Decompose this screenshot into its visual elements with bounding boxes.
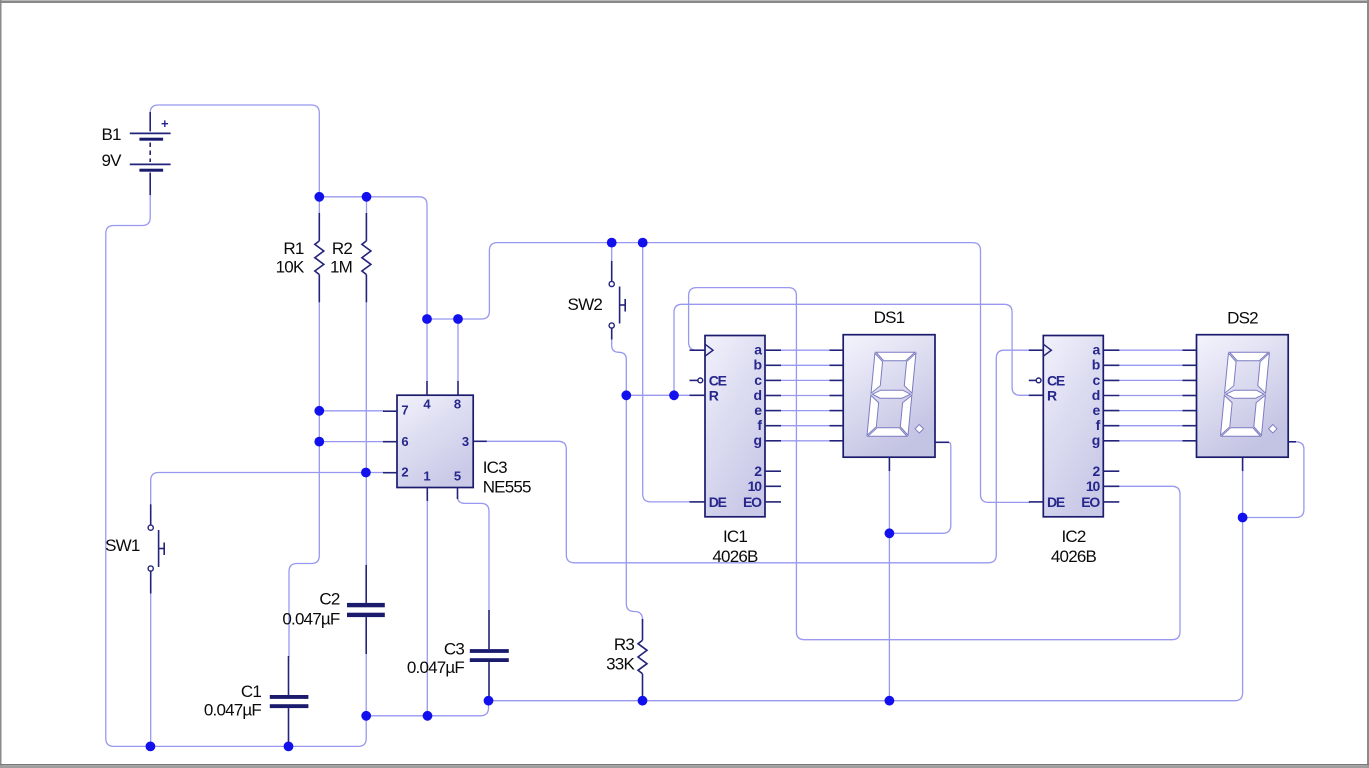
svg-text:IC2: IC2 (1061, 527, 1085, 546)
capacitor C3 (470, 610, 509, 701)
wire R1 top lead gap (318, 197, 320, 214)
wire pin 5 to C3 (458, 497, 490, 611)
svg-text:b: b (1092, 357, 1100, 373)
wire VCC junction down to IC1 DE pin (643, 243, 690, 502)
wire R row to IC1 R pin (626, 394, 690, 396)
wire IC1 segment e to DS1 (780, 410, 830, 412)
svg-text:4026B: 4026B (712, 547, 758, 566)
svg-text:10: 10 (1086, 478, 1101, 494)
wire IC1 segment f to DS1 (780, 425, 830, 427)
svg-text:IC3: IC3 (483, 458, 507, 477)
svg-text:1M: 1M (330, 258, 352, 277)
wire R2 bottom to pin2 junction to C2 (365, 302, 367, 567)
node pin1 ground junction (423, 711, 433, 721)
wire ground row y701 to DS2 common (489, 518, 1243, 701)
wire battery- down left side to ground rail (106, 194, 366, 746)
svg-text:DE: DE (709, 494, 727, 510)
node pin8 junction (453, 314, 463, 324)
node C1 ground junction (284, 742, 294, 752)
svg-text:1: 1 (423, 469, 430, 484)
wire IC2 segment b to DS2 (1119, 364, 1183, 366)
wire IC1 segment b to DS1 (780, 364, 830, 366)
wire IC2 pin10 loop to IC1 clock (689, 288, 1180, 640)
node R1 top junction (314, 192, 324, 202)
op-amp IC3 555 timer body (383, 381, 487, 501)
svg-text:DE: DE (1047, 494, 1065, 510)
IC2 4026B counter body (1029, 336, 1120, 517)
node DS1 common ground junction (885, 696, 895, 706)
svg-text:b: b (753, 357, 761, 373)
wire pin 6 (319, 441, 384, 443)
resistor R3 (638, 619, 647, 701)
wire DS1 right pin loop to common junction (889, 442, 950, 533)
svg-text:33K: 33K (606, 655, 635, 674)
svg-text:3: 3 (462, 434, 469, 449)
window frame left (0, 0, 2, 768)
resistor R1 (315, 213, 324, 302)
svg-text:0.047µF: 0.047µF (282, 609, 340, 628)
window frame right (1367, 0, 1369, 768)
wire R2 top lead gap (366, 197, 368, 214)
svg-text:NE555: NE555 (483, 477, 531, 496)
switch SW1 (push button) (148, 504, 164, 593)
svg-text:C3: C3 (444, 640, 464, 659)
wire SW1 bottom to ground rail (150, 592, 152, 746)
svg-text:8: 8 (454, 396, 461, 411)
svg-text:d: d (753, 387, 761, 403)
wire C2 bottom (365, 653, 367, 716)
wire SW1 to pin 2 (151, 473, 384, 506)
wire pin 4 drop (426, 319, 428, 382)
wire IC2 segment f to DS2 (1119, 425, 1183, 427)
node IC1 DE feed junction (638, 238, 648, 248)
wire SW2 bottom elbow to R row (612, 338, 627, 395)
svg-text:6: 6 (401, 434, 408, 449)
wire pin 8 drop (457, 319, 459, 382)
node pin6 junction (314, 437, 324, 447)
svg-text:4: 4 (423, 397, 431, 412)
wire IC2 segment e to DS2 (1119, 410, 1183, 412)
wire IC1 segment d to DS1 (780, 395, 830, 397)
switch SW2 (push button) (609, 261, 625, 340)
wire SW2 top stem gap (611, 243, 613, 262)
svg-text:g: g (753, 432, 761, 448)
node R row to IC2 junction (669, 390, 679, 400)
wire pin 1 to ground row (426, 501, 428, 716)
svg-text:9V: 9V (102, 151, 123, 170)
node C3 bottom junction (484, 696, 494, 706)
svg-text:DS2: DS2 (1227, 309, 1258, 328)
svg-text:4026B: 4026B (1051, 547, 1097, 566)
window frame bottom (0, 764, 1369, 765)
svg-text:5: 5 (454, 469, 461, 484)
svg-text:R1: R1 (283, 239, 303, 258)
wire DS2 common pin down (1242, 470, 1244, 518)
node DS2 common junction (1238, 513, 1248, 523)
wire node pins4-8 row to top VCC rail to IC2 DE (427, 243, 1030, 503)
node SW1 ground junction (146, 742, 156, 752)
wire IC2 segment d to DS2 (1119, 395, 1183, 397)
capacitor C1 (270, 656, 309, 746)
node pin2 junction (361, 468, 371, 478)
wire IC1 segment g to DS1 (780, 440, 830, 442)
svg-text:C2: C2 (319, 590, 339, 609)
node DS1 common pin junction (885, 528, 895, 538)
node pin4 junction (422, 314, 432, 324)
battery B1 (130, 112, 171, 195)
wire VCC rail R1-R2 to 555 pins 4/8 riser (319, 197, 427, 319)
display DS2 seven-segment (1183, 335, 1297, 471)
svg-text:CE: CE (1047, 373, 1065, 389)
svg-text:2: 2 (401, 465, 408, 480)
svg-text:+: + (161, 116, 169, 131)
svg-text:0.047µF: 0.047µF (204, 701, 262, 720)
node C2 bottom junction (361, 711, 371, 721)
wire IC1 segment c to DS1 (780, 379, 830, 381)
svg-text:SW2: SW2 (568, 295, 603, 314)
svg-text:B1: B1 (102, 125, 122, 144)
node pin7 junction (314, 406, 324, 416)
svg-text:g: g (1092, 432, 1100, 448)
wire R row junction up and over to IC2 R pin (674, 304, 1030, 395)
wire IC2 segment c to DS2 (1119, 379, 1183, 381)
node SW2 top junction (607, 238, 617, 248)
wire ground row y716 (366, 701, 488, 716)
svg-text:0.047µF: 0.047µF (407, 658, 465, 677)
wire 555 pin3 to IC2 clock (486, 350, 1030, 563)
node R3 bottom junction (638, 696, 648, 706)
node SW2 bottom / R row junction (621, 390, 631, 400)
svg-text:R: R (1047, 388, 1057, 404)
svg-text:R: R (709, 388, 719, 404)
svg-text:SW1: SW1 (105, 536, 140, 555)
svg-text:IC1: IC1 (723, 527, 747, 546)
resistor R2 (362, 213, 371, 302)
wire IC2 segment a to DS2 (1119, 349, 1183, 351)
node R2 top junction (362, 192, 372, 202)
wire IC1 segment a to DS1 (780, 349, 830, 351)
wire IC2 segment g to DS2 (1119, 440, 1183, 442)
svg-text:R2: R2 (332, 239, 352, 258)
capacitor C2 (347, 565, 385, 654)
svg-text:CE: CE (709, 373, 727, 389)
wire pin 7 (319, 410, 384, 412)
svg-text:d: d (1092, 387, 1100, 403)
svg-text:C1: C1 (241, 682, 261, 701)
wire battery+ to R1 top (150, 105, 319, 197)
wire R row junction down to R3 (626, 395, 642, 622)
IC1 4026B counter body (690, 336, 782, 517)
window frame top (0, 0, 1369, 1)
svg-text:EO: EO (743, 494, 762, 510)
wire R1 bottom to pin7/pin6 junctions to C1 (289, 302, 319, 658)
svg-text:R3: R3 (614, 635, 634, 654)
svg-text:7: 7 (401, 402, 408, 417)
wire DS1 common pin down to ground (888, 470, 890, 701)
svg-text:DS1: DS1 (874, 308, 905, 327)
wire DS2 right pin loop to common junction (1243, 442, 1304, 518)
display DS1 seven-segment (830, 335, 950, 471)
svg-text:10K: 10K (276, 258, 305, 277)
svg-text:10: 10 (748, 478, 763, 494)
svg-text:EO: EO (1081, 494, 1100, 510)
